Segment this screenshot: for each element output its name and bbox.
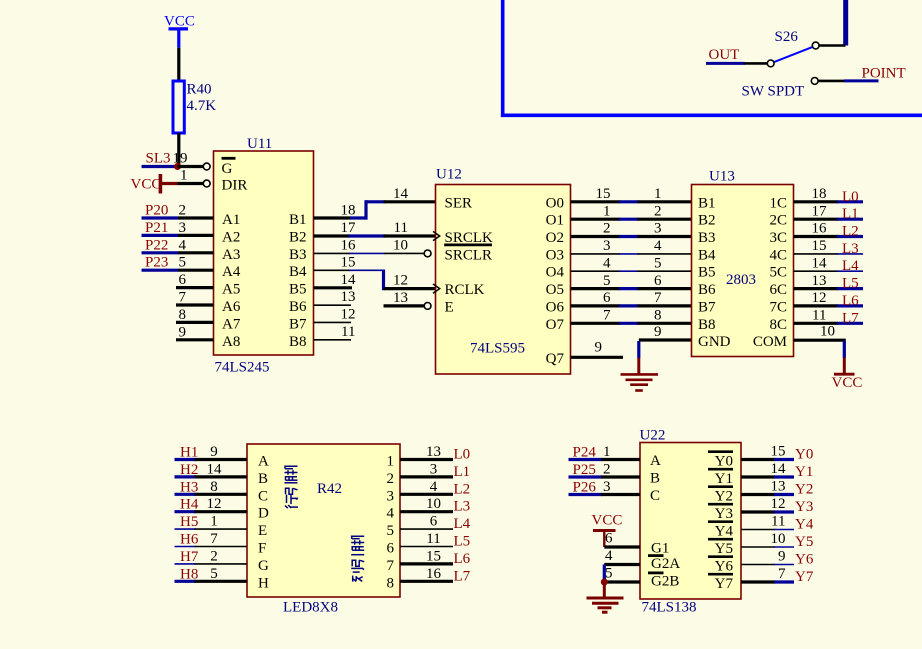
svg-text:2: 2 (603, 221, 611, 237)
U11 pin 7 (A6) stub wire (176, 290, 214, 306)
svg-text:10: 10 (426, 496, 441, 512)
svg-text:4: 4 (387, 506, 395, 522)
svg-text:7: 7 (179, 290, 187, 306)
ground symbol (U13 GND) (621, 358, 659, 391)
svg-text:B: B (650, 471, 660, 487)
U22 G1 (pin 6) wire (604, 531, 640, 548)
svg-text:16: 16 (426, 566, 442, 582)
svg-text:14: 14 (771, 461, 787, 477)
net label P24 / U22 pin 1 wire (569, 444, 641, 461)
svg-text:5: 5 (654, 255, 662, 271)
svg-text:11: 11 (426, 531, 440, 547)
svg-text:B3: B3 (289, 247, 307, 263)
wire U12 O0 (pin 15) to U13 B1 (pin 1) (571, 186, 692, 202)
net label P26 / U22 pin 3 wire (569, 479, 641, 496)
net label OUT / wire to S26 common (706, 47, 767, 63)
svg-text:16: 16 (812, 221, 828, 237)
svg-text:10: 10 (393, 237, 408, 253)
svg-text:H5: H5 (180, 514, 198, 530)
svg-text:O7: O7 (546, 317, 565, 333)
svg-text:12: 12 (393, 273, 408, 289)
svg-text:B1: B1 (289, 212, 307, 228)
svg-text:Q7: Q7 (546, 351, 565, 367)
wire VCC to R40 (177, 48, 180, 82)
U13 pin 11 wire / net label L7 (794, 308, 864, 327)
svg-text:U13: U13 (709, 169, 735, 185)
svg-text:4: 4 (605, 548, 613, 564)
svg-text:L3: L3 (454, 499, 471, 515)
svg-text:SL3: SL3 (146, 151, 171, 167)
wire U12 O4 (pin 4) to U13 B5 (pin 5) (571, 255, 692, 271)
svg-text:O5: O5 (546, 282, 564, 298)
svg-text:15: 15 (426, 548, 441, 564)
svg-text:G1: G1 (651, 540, 669, 556)
svg-text:7: 7 (603, 308, 611, 324)
svg-text:P26: P26 (573, 480, 597, 496)
svg-text:2: 2 (654, 203, 662, 219)
svg-text:Y3: Y3 (715, 506, 733, 522)
svg-text:L4: L4 (842, 258, 859, 274)
svg-text:SW SPDT: SW SPDT (742, 84, 805, 100)
svg-text:Y7: Y7 (715, 576, 734, 592)
svg-text:10: 10 (771, 531, 786, 547)
svg-text:3: 3 (603, 479, 611, 495)
svg-text:L2: L2 (842, 224, 859, 240)
U22 pin 9 wire / net label Y6 (741, 549, 814, 568)
U12 E (pin 13) wire (384, 290, 432, 309)
svg-text:A: A (258, 454, 269, 470)
LED8X8 pin 6 wire / net label L4 (400, 514, 471, 533)
svg-text:C: C (258, 488, 268, 504)
svg-text:A7: A7 (222, 316, 241, 332)
svg-text:H6: H6 (180, 532, 199, 548)
svg-text:74LS138: 74LS138 (642, 600, 697, 616)
svg-text:12: 12 (812, 290, 827, 306)
svg-text:2: 2 (179, 203, 187, 219)
junction at U22 pin 5 / ground (601, 579, 608, 586)
U13 pin 12 wire / net label L6 (794, 290, 864, 309)
svg-text:9: 9 (210, 444, 218, 460)
U13 COM (pin 10) wire (794, 324, 846, 359)
net label P20 / U11 pin 2 wire (142, 203, 214, 219)
svg-text:L5: L5 (454, 534, 471, 550)
svg-text:2: 2 (210, 548, 218, 564)
svg-text:11: 11 (812, 308, 826, 324)
power port VCC (top, R40 pull-up) (164, 14, 195, 48)
svg-text:VCC: VCC (131, 177, 162, 193)
switch S26 SW SPDT (742, 29, 846, 100)
U22 G2A (pin 4) wire (604, 548, 640, 565)
svg-text:SER: SER (445, 195, 473, 211)
svg-text:12: 12 (341, 306, 356, 322)
LED8X8 pin 4 wire / net label L2 (400, 479, 470, 498)
LED8X8 pin 13 wire / net label L0 (400, 444, 470, 463)
svg-text:17: 17 (341, 220, 357, 236)
svg-text:H3: H3 (180, 479, 198, 495)
svg-text:B4: B4 (289, 264, 307, 280)
U13 pin 18 wire / net label L0 (794, 186, 864, 205)
net label H8 / LED8X8 pin 5 wire (175, 566, 248, 583)
svg-text:S26: S26 (775, 29, 799, 45)
svg-text:R40: R40 (187, 82, 212, 98)
svg-text:74LS595: 74LS595 (470, 341, 525, 357)
svg-text:5: 5 (387, 523, 395, 539)
svg-text:B7: B7 (698, 299, 716, 315)
svg-text:L5: L5 (842, 276, 859, 292)
svg-text:R42: R42 (317, 481, 342, 497)
svg-text:13: 13 (341, 289, 356, 305)
U12 Q7 (pin 9) stub wire (571, 339, 624, 357)
svg-text:Y2: Y2 (715, 489, 733, 505)
svg-text:G: G (222, 161, 233, 177)
svg-text:6: 6 (654, 273, 662, 289)
svg-text:P22: P22 (145, 237, 168, 253)
svg-text:L3: L3 (842, 241, 859, 257)
IC U22 74LS138 body (640, 428, 742, 616)
svg-text:Y6: Y6 (795, 552, 814, 568)
svg-text:H7: H7 (180, 549, 199, 565)
svg-text:VCC: VCC (832, 375, 863, 391)
svg-text:8: 8 (387, 575, 395, 591)
svg-text:E: E (258, 523, 267, 539)
U22 pin 14 wire / net label Y1 (741, 461, 813, 480)
svg-text:H4: H4 (180, 497, 199, 513)
svg-text:10: 10 (820, 324, 835, 340)
svg-text:16: 16 (341, 237, 357, 253)
svg-text:7: 7 (387, 558, 395, 574)
svg-text:7: 7 (210, 531, 218, 547)
svg-text:4.7K: 4.7K (187, 98, 217, 114)
svg-text:POINT: POINT (862, 66, 906, 82)
svg-text:4C: 4C (769, 247, 787, 263)
power port VCC (U22 G1) (592, 513, 623, 548)
U22 pin 13 wire / net label Y2 (741, 479, 813, 498)
svg-text:COM: COM (753, 334, 787, 350)
svg-text:Y0: Y0 (715, 454, 733, 470)
svg-text:11: 11 (394, 220, 408, 236)
svg-text:14: 14 (207, 461, 223, 477)
svg-text:L1: L1 (842, 206, 859, 222)
net label P23 / U11 pin 5 wire (142, 255, 214, 271)
svg-text:15: 15 (596, 186, 611, 202)
svg-text:Y1: Y1 (715, 471, 733, 487)
U11 B7 (pin 12) stub wire (314, 306, 356, 322)
svg-text:19: 19 (173, 151, 188, 167)
net label P25 / U22 pin 2 wire (569, 462, 641, 479)
svg-text:A3: A3 (222, 247, 240, 263)
svg-text:3: 3 (603, 238, 611, 254)
svg-text:14: 14 (812, 255, 828, 271)
svg-text:E: E (445, 299, 454, 315)
svg-text:L7: L7 (454, 568, 471, 584)
U11 B8 (pin 11) stub wire (314, 324, 356, 340)
svg-text:VCC: VCC (592, 513, 623, 529)
power port VCC (at U11 DIR) (131, 174, 178, 194)
svg-text:3: 3 (430, 461, 438, 477)
svg-text:8: 8 (210, 479, 218, 495)
svg-text:4: 4 (179, 237, 187, 253)
LED8X8 pin 3 wire / net label L1 (400, 461, 470, 480)
svg-text:DIR: DIR (222, 178, 248, 194)
svg-text:4: 4 (430, 479, 438, 495)
LED8X8 pin 11 wire / net label L5 (400, 531, 470, 550)
svg-text:L2: L2 (454, 481, 471, 497)
svg-text:2: 2 (603, 462, 611, 478)
svg-text:B4: B4 (698, 247, 716, 263)
svg-text:11: 11 (771, 514, 785, 530)
net label H5 / LED8X8 pin 1 wire (175, 514, 248, 531)
svg-text:B2: B2 (289, 229, 307, 245)
U11 pin 6 (A5) stub wire (176, 272, 214, 288)
IC U11 74LS245 body (214, 136, 314, 376)
junction at SL3 / U11 pin 19 (174, 163, 181, 170)
svg-text:O1: O1 (546, 213, 564, 229)
U22 pin 11 wire / net label Y4 (741, 514, 814, 533)
U22 pin 15 wire / net label Y0 (741, 444, 813, 463)
svg-text:Y6: Y6 (715, 559, 734, 575)
svg-text:D: D (258, 506, 269, 522)
svg-text:11: 11 (341, 324, 355, 340)
svg-text:P20: P20 (145, 203, 168, 219)
svg-text:RCLK: RCLK (445, 282, 485, 298)
svg-text:14: 14 (393, 186, 409, 202)
LED8X8 pin 16 wire / net label L7 (400, 566, 471, 585)
U11 B5 (pin 14) stub wire (314, 272, 357, 288)
svg-text:B2: B2 (698, 213, 716, 229)
U22 pin 10 wire / net label Y5 (741, 531, 813, 550)
wire U11 B3 (pin 16) to U12 SRCLR (pin 10) (314, 237, 432, 256)
net label POINT / wire from S26 throw 2 (811, 66, 905, 85)
wire U12 O5 (pin 5) to U13 B6 (pin 6) (571, 273, 692, 289)
net label H3 / LED8X8 pin 8 wire (175, 479, 248, 496)
svg-text:74LS245: 74LS245 (215, 360, 270, 376)
svg-text:B3: B3 (698, 230, 716, 246)
svg-text:17: 17 (812, 203, 828, 219)
svg-text:6C: 6C (769, 282, 787, 298)
svg-text:B5: B5 (698, 265, 716, 281)
wire U11 B2 (pin 17) to U12 SRCLK (pin 11) (314, 220, 436, 236)
wire R40 to node SL3 (177, 133, 180, 167)
svg-text:6: 6 (603, 290, 611, 306)
svg-text:A5: A5 (222, 282, 240, 298)
net label H4 / LED8X8 pin 12 wire (175, 496, 248, 513)
svg-text:15: 15 (812, 238, 827, 254)
svg-text:Y1: Y1 (795, 464, 813, 480)
svg-text:1: 1 (387, 454, 395, 470)
svg-text:7C: 7C (769, 299, 787, 315)
wire U12 O3 (pin 3) to U13 B4 (pin 4) (571, 238, 692, 254)
svg-text:7: 7 (778, 566, 786, 582)
svg-text:9: 9 (179, 324, 187, 340)
svg-text:6: 6 (605, 531, 613, 547)
svg-text:3C: 3C (769, 230, 787, 246)
svg-text:U12: U12 (436, 167, 462, 183)
wire (thick) from top to switch S26 (843, 0, 848, 46)
svg-text:1: 1 (654, 186, 662, 202)
svg-text:18: 18 (341, 203, 356, 219)
svg-text:B7: B7 (289, 316, 307, 332)
svg-text:8: 8 (179, 307, 187, 323)
svg-text:5: 5 (603, 273, 611, 289)
svg-text:L6: L6 (454, 551, 471, 567)
svg-text:1: 1 (210, 514, 218, 530)
svg-text:5: 5 (179, 255, 187, 271)
svg-text:OUT: OUT (709, 47, 740, 63)
wire U12 O7 (pin 7) to U13 B8 (pin 8) (571, 308, 692, 324)
svg-text:5: 5 (210, 566, 218, 582)
net label H1 / LED8X8 pin 9 wire (175, 444, 248, 461)
U13 pin 15 wire / net label L3 (794, 238, 864, 257)
svg-text:B6: B6 (698, 282, 716, 298)
svg-text:G: G (258, 558, 269, 574)
svg-text:18: 18 (812, 186, 827, 202)
svg-text:GND: GND (698, 334, 731, 350)
U11 pin 1 (DIR) wire (178, 168, 211, 187)
LED8X8 pin 15 wire / net label L6 (400, 548, 471, 567)
svg-text:1C: 1C (769, 195, 787, 211)
svg-text:6: 6 (430, 514, 438, 530)
U13 pin 17 wire / net label L1 (794, 203, 864, 222)
U13 pin 16 wire / net label L2 (794, 221, 864, 240)
wire U12 O1 (pin 1) to U13 B2 (pin 2) (571, 203, 692, 219)
svg-text:G2A: G2A (651, 556, 680, 572)
svg-text:2: 2 (387, 471, 395, 487)
power port VCC (U13 COM) (832, 358, 863, 392)
svg-text:B8: B8 (698, 317, 716, 333)
svg-text:13: 13 (426, 444, 441, 460)
svg-text:4: 4 (654, 238, 662, 254)
svg-text:3: 3 (179, 220, 187, 236)
wire U12 O6 (pin 6) to U13 B7 (pin 7) (571, 290, 692, 306)
svg-text:9: 9 (595, 339, 603, 355)
svg-text:U22: U22 (640, 428, 666, 444)
svg-text:U11: U11 (247, 136, 272, 152)
net label P21 / U11 pin 3 wire (142, 220, 214, 236)
svg-text:2803: 2803 (726, 272, 756, 288)
svg-text:A6: A6 (222, 299, 241, 315)
svg-text:13: 13 (812, 273, 827, 289)
U22 G2B (pin 5) wire (604, 566, 640, 583)
svg-text:15: 15 (771, 444, 786, 460)
svg-text:P25: P25 (573, 462, 596, 478)
svg-text:F: F (258, 541, 266, 557)
ground symbol (U22 G2B) (587, 582, 624, 612)
svg-text:L0: L0 (842, 189, 859, 205)
svg-text:H: H (258, 575, 269, 591)
svg-text:A4: A4 (222, 264, 241, 280)
U22 pin 7 wire / net label Y7 (741, 566, 814, 585)
svg-text:9: 9 (654, 324, 662, 340)
svg-text:4: 4 (603, 255, 611, 271)
svg-text:1: 1 (180, 168, 188, 184)
U11 pin 9 (A8) stub wire (176, 324, 214, 340)
svg-text:SRCLR: SRCLR (445, 247, 493, 263)
svg-text:5C: 5C (769, 265, 787, 281)
svg-text:L4: L4 (454, 516, 471, 532)
svg-text:H8: H8 (180, 566, 198, 582)
U13 pin 13 wire / net label L5 (794, 273, 864, 292)
net label P22 / U11 pin 4 wire (142, 237, 214, 253)
svg-text:Y2: Y2 (795, 482, 813, 498)
svg-text:Y4: Y4 (795, 517, 814, 533)
svg-text:B5: B5 (289, 282, 307, 298)
svg-text:O0: O0 (546, 195, 564, 211)
svg-text:C: C (650, 488, 660, 504)
svg-text:P23: P23 (145, 255, 168, 271)
svg-text:13: 13 (393, 290, 408, 306)
svg-text:8C: 8C (769, 317, 787, 333)
wire joining U22 pins 4 and 5 (603, 565, 606, 583)
svg-text:H2: H2 (180, 462, 198, 478)
svg-text:3: 3 (654, 221, 662, 237)
svg-text:A1: A1 (222, 212, 240, 228)
svg-text:B1: B1 (698, 195, 716, 211)
IC U12 74LS595 body (433, 167, 571, 375)
svg-text:G2B: G2B (651, 573, 679, 589)
svg-text:P21: P21 (145, 220, 168, 236)
svg-text:1: 1 (603, 203, 611, 219)
svg-text:O6: O6 (546, 299, 565, 315)
svg-text:2C: 2C (769, 213, 787, 229)
wire (blue frame, to other sheet area) (501, 0, 922, 117)
LED matrix R42 LED8X8 body (247, 444, 400, 616)
svg-text:6: 6 (179, 272, 187, 288)
svg-text:Y7: Y7 (795, 569, 814, 585)
svg-text:P24: P24 (573, 445, 597, 461)
svg-text:6: 6 (387, 541, 395, 557)
svg-text:A2: A2 (222, 229, 240, 245)
svg-text:O4: O4 (546, 265, 565, 281)
svg-text:LED8X8: LED8X8 (283, 600, 338, 616)
U22 pin 12 wire / net label Y3 (741, 496, 813, 515)
svg-text:B6: B6 (289, 299, 307, 315)
svg-text:Y3: Y3 (795, 499, 813, 515)
svg-text:L7: L7 (842, 310, 859, 326)
svg-text:L1: L1 (454, 464, 471, 480)
svg-text:H1: H1 (180, 445, 198, 461)
svg-text:7: 7 (654, 290, 662, 306)
svg-text:VCC: VCC (164, 14, 195, 30)
svg-text:L0: L0 (454, 447, 471, 463)
svg-text:O3: O3 (546, 247, 564, 263)
svg-text:Y0: Y0 (795, 447, 813, 463)
svg-text:B: B (258, 471, 268, 487)
svg-text:9: 9 (778, 549, 786, 565)
svg-text:8: 8 (654, 308, 662, 324)
net label H7 / LED8X8 pin 2 wire (175, 548, 248, 565)
U13 GND (pin 9) wire (639, 324, 692, 358)
U11 pin 8 (A7) stub wire (176, 307, 214, 323)
svg-text:15: 15 (341, 254, 356, 270)
resistor R40 4.7K (173, 81, 216, 133)
U11 pin 19 (G) wire (173, 151, 211, 170)
svg-text:13: 13 (771, 479, 786, 495)
LED8X8 pin 10 wire / net label L3 (400, 496, 470, 515)
net label H2 / LED8X8 pin 14 wire (175, 461, 248, 478)
U13 pin 14 wire / net label L4 (794, 255, 864, 274)
svg-text:B8: B8 (289, 334, 307, 350)
net label H6 / LED8X8 pin 7 wire (175, 531, 248, 548)
svg-text:Y5: Y5 (715, 541, 733, 557)
wire U11 B1 (pin 18) to U12 SER (pin 14) (314, 186, 436, 220)
svg-text:O2: O2 (546, 230, 564, 246)
wire U12 O2 (pin 2) to U13 B3 (pin 3) (571, 221, 692, 237)
net label SL3 / wire (142, 151, 178, 167)
IC U13 2803 body (692, 169, 794, 357)
svg-text:Y5: Y5 (795, 534, 813, 550)
wire U11 B4 (pin 15) to U12 RCLK (pin 12) (314, 254, 436, 290)
svg-text:A: A (650, 453, 661, 469)
